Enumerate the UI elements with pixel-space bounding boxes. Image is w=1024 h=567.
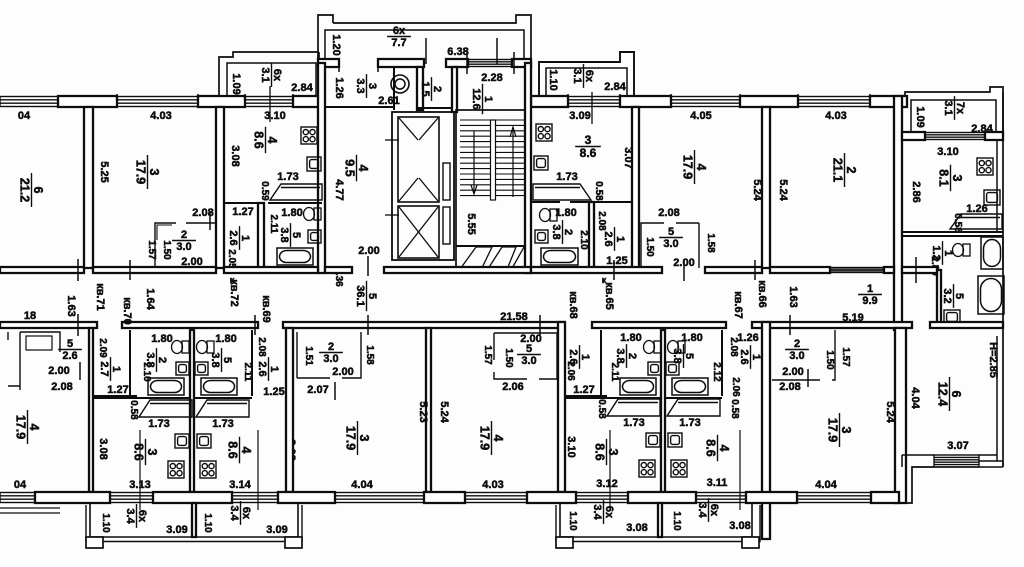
svg-text:8.6: 8.6: [593, 443, 607, 460]
svg-text:6x: 6x: [240, 507, 252, 520]
svg-text:2.6: 2.6: [256, 361, 268, 376]
wall: [224, 267, 318, 273]
svg-text:3.07: 3.07: [947, 440, 968, 452]
wall under kitchen 2: [268, 202, 322, 204]
label 2/1.5: [419, 77, 443, 101]
label 6x/3.4: [228, 501, 252, 525]
label 4/17.9 (cut): [14, 410, 42, 444]
label 3/8.6: [593, 439, 621, 466]
elevator door slot 1: [443, 163, 450, 200]
svg-text:2.00: 2.00: [782, 366, 803, 378]
svg-text:1: 1: [867, 283, 873, 295]
label 4/8.6: [226, 437, 254, 464]
svg-text:2.6: 2.6: [602, 231, 614, 246]
svg-text:8.6: 8.6: [226, 441, 240, 458]
svg-text:6x: 6x: [271, 69, 283, 82]
label 6x/3.4: [696, 498, 720, 522]
dim tick: [367, 315, 369, 335]
svg-text:3.8: 3.8: [278, 227, 290, 242]
label 3/3.3: [354, 74, 378, 98]
label 5/36.1 corridor: [354, 281, 378, 311]
wall entry/bath: [600, 330, 602, 396]
label 3/17.9: [134, 155, 162, 189]
tick: [619, 94, 621, 108]
wall: [531, 267, 662, 273]
svg-text:3.3: 3.3: [354, 78, 366, 93]
svg-text:6x: 6x: [136, 510, 148, 523]
counter: [950, 214, 1002, 229]
svg-text:2.00: 2.00: [332, 366, 353, 378]
svg-text:1.64: 1.64: [144, 288, 156, 310]
window 4.04: [335, 493, 424, 503]
12.4 bottom wall: [902, 455, 934, 467]
svg-text:1.80: 1.80: [620, 332, 641, 344]
partition: [456, 245, 531, 247]
label 6/21.2 (cut): [18, 173, 46, 207]
vestibule left tab: [318, 15, 333, 63]
svg-text:1.26: 1.26: [737, 332, 758, 344]
svg-text:3.0: 3.0: [663, 238, 678, 250]
svg-text:6x: 6x: [583, 70, 595, 83]
dim tick: [129, 260, 131, 280]
sink: [668, 433, 682, 447]
svg-text:1.57: 1.57: [840, 347, 851, 367]
svg-text:1.10: 1.10: [100, 513, 111, 533]
wall: [283, 322, 564, 328]
wall: [705, 267, 762, 273]
svg-text:1.80: 1.80: [215, 333, 236, 345]
svg-text:кв.67: кв.67: [732, 291, 744, 319]
svg-text:3.4: 3.4: [591, 504, 603, 520]
wall between kitchens: [190, 330, 194, 492]
svg-text:1.20: 1.20: [330, 34, 342, 55]
svg-text:2.6: 2.6: [227, 230, 239, 245]
svg-text:1.58: 1.58: [705, 233, 716, 253]
svg-text:2.10: 2.10: [578, 230, 589, 250]
sink small: [308, 230, 321, 243]
dim tick: [77, 259, 79, 281]
svg-text:8.6: 8.6: [132, 443, 146, 460]
label 4/8.6: [704, 435, 732, 462]
svg-text:3.4: 3.4: [696, 502, 708, 518]
svg-text:2: 2: [156, 357, 168, 363]
elevator shaft block outline: [392, 112, 454, 260]
svg-text:1.5: 1.5: [419, 81, 431, 96]
counter: [667, 399, 720, 416]
label 2/3.0: [319, 341, 343, 365]
label 1/2.6: [738, 345, 762, 369]
sink: [984, 190, 1000, 205]
wall pier: [870, 96, 907, 107]
tick: [425, 38, 427, 64]
label balcony 7x/3.1: [942, 96, 966, 120]
svg-text:1.26: 1.26: [333, 77, 345, 98]
tick: [367, 256, 369, 276]
tick: [869, 94, 871, 108]
svg-text:3: 3: [606, 449, 620, 456]
svg-text:3.09: 3.09: [569, 110, 590, 122]
garbage chute circle: [391, 75, 409, 93]
wall: [902, 267, 937, 273]
wall right of 1.5: [452, 67, 457, 112]
counter: [139, 400, 192, 417]
svg-text:3: 3: [585, 133, 592, 147]
wall: [930, 322, 1003, 328]
closet right wall: [698, 223, 700, 268]
stair treads hatch: [460, 120, 526, 196]
dim tick: [754, 260, 756, 280]
wall right of 3.3: [393, 67, 395, 110]
label 6/12.4: [936, 377, 964, 411]
svg-text:1: 1: [942, 250, 954, 256]
svg-text:1.50: 1.50: [644, 237, 655, 257]
stove: [536, 124, 552, 141]
svg-text:2.6: 2.6: [738, 349, 750, 364]
tick: [513, 52, 515, 74]
svg-text:8.6: 8.6: [252, 131, 266, 148]
balcony 6x3.1 outline: [227, 63, 316, 96]
label 6x/3.4: [124, 504, 148, 528]
none: [139, 439, 141, 441]
wall baths/kitchens 2: [194, 397, 252, 399]
toilet: [540, 209, 558, 222]
label vestibule 6x/7.7: [387, 25, 411, 49]
window 4.03: [465, 493, 527, 503]
wall pier: [424, 492, 465, 503]
tick: [739, 94, 741, 108]
svg-text:3: 3: [839, 427, 853, 434]
12.4 bottom wall right part: [931, 455, 1003, 467]
label 1/2.6: [227, 226, 251, 250]
label 1/2.6: [567, 345, 591, 369]
svg-text:2.84: 2.84: [291, 82, 313, 94]
svg-text:8.6: 8.6: [580, 146, 597, 160]
label 2/3.0: [172, 229, 196, 253]
svg-text:8.1: 8.1: [937, 169, 951, 186]
window 4.05: [671, 97, 740, 107]
svg-text:2: 2: [181, 229, 187, 241]
tick: [292, 94, 294, 108]
svg-text:2.11: 2.11: [609, 363, 620, 382]
dim tick: [539, 315, 541, 335]
svg-text:5: 5: [221, 357, 233, 363]
svg-text:1.80: 1.80: [151, 333, 172, 345]
label balcony 6x/3.1: [571, 64, 595, 88]
svg-text:17.9: 17.9: [134, 160, 148, 184]
svg-text:0.59: 0.59: [259, 181, 270, 201]
wall pier: [746, 492, 797, 503]
east wall inner 12.4: [996, 336, 998, 455]
tick long 3.14: [257, 430, 259, 510]
svg-text:4: 4: [239, 447, 253, 454]
label 3/17.9: [344, 421, 372, 455]
tick: [567, 94, 569, 108]
window 4.03 right: [798, 97, 870, 107]
tick: [209, 212, 211, 230]
dim tick: [613, 260, 615, 280]
tick: [116, 94, 118, 108]
svg-text:3: 3: [145, 449, 159, 456]
svg-text:4.05: 4.05: [690, 110, 711, 122]
wall under 1.5: [417, 107, 455, 109]
elevator car 2: [398, 206, 439, 258]
label 1/2.7: [98, 357, 122, 381]
svg-text:3: 3: [357, 435, 371, 442]
svg-text:1.58: 1.58: [364, 345, 375, 365]
svg-text:36.1: 36.1: [354, 285, 366, 306]
svg-text:5: 5: [953, 293, 965, 299]
stove: [977, 158, 993, 175]
closet 5/2.6 lower-left: [8, 332, 60, 390]
svg-text:0.58: 0.58: [729, 399, 740, 419]
svg-text:4.03: 4.03: [825, 110, 846, 122]
sink: [195, 362, 208, 375]
svg-text:1: 1: [110, 366, 122, 372]
svg-text:6: 6: [31, 187, 45, 194]
elevator 2 X diagonals: [399, 207, 438, 257]
svg-text:1.50: 1.50: [503, 348, 514, 368]
svg-text:1.25: 1.25: [606, 255, 627, 267]
elevator door slot 2: [443, 207, 450, 244]
svg-text:2.08: 2.08: [51, 381, 72, 393]
svg-text:04: 04: [18, 110, 31, 122]
wall: [378, 59, 424, 67]
label 4/17.9: [681, 150, 709, 184]
svg-text:2.00: 2.00: [520, 333, 541, 345]
svg-text:3.10: 3.10: [937, 146, 958, 158]
svg-text:4.04: 4.04: [351, 479, 373, 491]
svg-text:1: 1: [614, 236, 626, 242]
svg-text:4.04: 4.04: [909, 387, 921, 409]
core left wall: [318, 63, 325, 273]
dim tick: [254, 315, 256, 335]
svg-text:кв.65: кв.65: [603, 282, 615, 310]
svg-text:1.27: 1.27: [107, 384, 128, 396]
svg-text:3.08: 3.08: [626, 522, 647, 534]
svg-text:1.73: 1.73: [556, 171, 577, 183]
svg-text:17.9: 17.9: [826, 418, 840, 442]
svg-text:2: 2: [626, 353, 638, 359]
wall: [884, 267, 894, 273]
wall kitchen/17.9: [286, 328, 293, 492]
wall pier: [628, 492, 696, 503]
wall pier: [620, 96, 671, 107]
wall under entry: [93, 395, 137, 397]
svg-text:3.09: 3.09: [266, 524, 287, 536]
svg-text:5.23: 5.23: [417, 401, 429, 422]
svg-text:0.58: 0.58: [593, 181, 604, 201]
wall: [0, 322, 97, 328]
svg-text:3.0: 3.0: [789, 350, 804, 362]
label 2/3.8: [550, 220, 574, 244]
label 5/3.2: [941, 284, 965, 308]
tick long 3.11: [739, 430, 741, 510]
svg-text:1.57: 1.57: [146, 240, 157, 260]
tick long at kitchen window: [269, 86, 271, 122]
triple band left edge: [0, 508, 60, 513]
svg-text:4: 4: [356, 165, 370, 172]
vestibule outer wall: [333, 15, 531, 63]
wall under kitchen: [531, 201, 560, 203]
wall pier: [153, 492, 232, 503]
svg-text:4: 4: [265, 137, 279, 144]
svg-text:6x: 6x: [603, 506, 615, 519]
svg-text:1.51: 1.51: [303, 346, 314, 366]
label 1/1.2: [930, 241, 954, 265]
svg-text:17.9: 17.9: [344, 426, 358, 450]
sink: [307, 157, 321, 171]
closet shelf: [26, 336, 52, 350]
svg-text:3.09: 3.09: [166, 524, 187, 536]
step wall right of 17.9: [899, 467, 931, 503]
svg-text:2.08: 2.08: [256, 337, 267, 357]
wall pier: [740, 96, 798, 107]
svg-text:2.12: 2.12: [711, 362, 722, 382]
loggia divider: [658, 503, 662, 537]
window band: [468, 60, 512, 67]
loggia pier right: [742, 537, 759, 548]
label 4/17.9: [478, 421, 506, 455]
svg-text:к: к: [602, 275, 607, 285]
wall pier: [985, 132, 1003, 140]
label 3/8.6: [132, 439, 160, 466]
svg-text:1.73: 1.73: [679, 417, 700, 429]
svg-text:2: 2: [562, 229, 574, 235]
lower flight diagonal hatch: [458, 247, 530, 272]
balcony corner: [318, 52, 320, 63]
wall: [902, 132, 925, 140]
wall between 21.2 and 17.9: [84, 107, 93, 268]
svg-text:3.10: 3.10: [565, 436, 577, 457]
svg-text:1.80: 1.80: [555, 207, 576, 219]
wall bath/wc: [721, 330, 723, 396]
svg-text:2.28: 2.28: [481, 72, 502, 84]
svg-text:2.6: 2.6: [62, 350, 77, 362]
svg-text:3.0: 3.0: [521, 355, 536, 367]
closet 5/3.0 walls: [494, 333, 557, 379]
window 3.13: [110, 493, 153, 503]
svg-text:2: 2: [328, 341, 334, 353]
svg-text:0.58: 0.58: [596, 399, 607, 419]
dim tick: [789, 315, 791, 335]
closet 2/3.0 walls: [297, 332, 361, 378]
svg-text:кв.70: кв.70: [121, 297, 133, 325]
tick: [797, 94, 799, 108]
svg-text:1.27: 1.27: [573, 384, 594, 396]
svg-text:2.61: 2.61: [378, 95, 399, 107]
svg-text:7.7: 7.7: [391, 37, 406, 49]
wall baths/kitchens: [665, 397, 722, 399]
svg-text:0.58: 0.58: [952, 213, 963, 233]
stair up arrow right flight: [510, 127, 516, 197]
tick long 3.13: [139, 430, 141, 510]
room 3/3.3 walls: [325, 67, 378, 107]
bathtub: [277, 248, 313, 265]
label 2/21.1: [831, 153, 859, 187]
wall left of 1.5: [417, 67, 423, 110]
wall: [325, 267, 352, 273]
sink: [648, 362, 661, 375]
bathtub 3.2: [978, 276, 1004, 314]
loggia divider: [192, 503, 196, 537]
svg-text:1: 1: [268, 366, 280, 372]
elevator left wall ticks: [385, 139, 399, 141]
counter: [607, 399, 660, 416]
svg-text:1.73: 1.73: [623, 417, 644, 429]
wall: [0, 267, 84, 273]
label 5/2.6: [58, 338, 82, 362]
tick: [807, 369, 809, 387]
svg-text:1: 1: [579, 354, 591, 360]
svg-text:5: 5: [67, 338, 73, 350]
east wall inner: [996, 140, 998, 232]
label 1/9.9: [858, 283, 882, 307]
stove: [168, 461, 184, 478]
svg-text:кв.68: кв.68: [567, 291, 579, 319]
closet 2/3.0 upper-left walls: [155, 223, 216, 268]
window 3.11: [696, 493, 746, 503]
label 5/3.0: [517, 343, 541, 367]
svg-text:5.55: 5.55: [465, 213, 477, 234]
svg-text:5.24: 5.24: [438, 401, 450, 423]
svg-text:04: 04: [14, 479, 27, 491]
bathtub vertical: [981, 237, 1003, 269]
loggia pier left: [86, 537, 103, 548]
elevator 1 X diagonals: [399, 118, 438, 201]
left loggia pair outline: [90, 503, 298, 537]
svg-text:6: 6: [949, 391, 963, 398]
svg-text:2.07: 2.07: [307, 384, 328, 396]
window 3.12: [576, 493, 628, 503]
vestibule inner: [325, 30, 524, 63]
label 3/17.9: [826, 413, 854, 447]
svg-text:кв.71: кв.71: [94, 283, 106, 311]
window 4.03 top: [117, 97, 198, 107]
label 1/12.6: [470, 84, 494, 114]
svg-text:2.06: 2.06: [502, 381, 523, 393]
svg-text:2.08: 2.08: [779, 381, 800, 393]
wall pier: [527, 492, 576, 503]
svg-text:4.03: 4.03: [150, 110, 171, 122]
stove: [301, 127, 317, 144]
wall: [752, 322, 912, 328]
sink: [535, 230, 548, 243]
loggia pier left: [556, 537, 573, 548]
svg-text:21.58: 21.58: [500, 311, 528, 323]
svg-text:3: 3: [366, 83, 378, 89]
sink: [944, 310, 960, 324]
wall pier: [58, 96, 117, 107]
wall 17.9/21.1: [762, 107, 770, 268]
wall under entry: [565, 395, 607, 397]
wall left of bath 3.2: [937, 270, 941, 327]
label 2/3.8: [614, 344, 638, 368]
svg-text:2.7: 2.7: [98, 361, 110, 376]
wall bath/wc: [251, 330, 253, 396]
wall: [770, 267, 830, 273]
dim tick: [915, 257, 917, 283]
kitchen counter: [533, 184, 591, 200]
elevator car 1: [398, 117, 439, 202]
balcony 6x3.1-b outer: [539, 52, 634, 96]
svg-text:5: 5: [366, 293, 378, 299]
tick: [334, 382, 336, 400]
svg-text:3.10: 3.10: [264, 110, 285, 122]
wall 17.9/12.4: [895, 328, 906, 503]
svg-text:4: 4: [27, 424, 41, 431]
svg-text:1.63: 1.63: [787, 286, 799, 307]
svg-text:1: 1: [482, 96, 494, 102]
